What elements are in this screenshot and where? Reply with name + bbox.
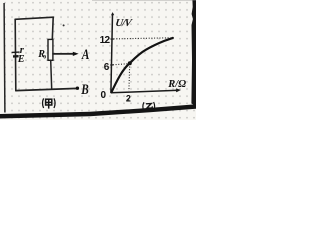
ink speck [63, 24, 65, 26]
label E [17, 54, 25, 65]
dashed line U=12 [111, 38, 171, 39]
label r [20, 45, 25, 56]
label A [81, 46, 89, 63]
label 0 [101, 90, 107, 101]
battery E [12, 52, 20, 56]
wire left [14, 19, 17, 90]
wire top [15, 17, 53, 19]
label U/V [115, 18, 134, 29]
label 12 [100, 35, 111, 46]
svg-text:U/V: U/V [115, 18, 134, 29]
wire to terminal A [53, 53, 74, 55]
svg-text:6: 6 [104, 62, 110, 73]
svg-text:B: B [80, 81, 88, 98]
scan frame decorations (unlabeled) [0, 0, 196, 119]
wire right [51, 17, 54, 40]
resistor R0 [48, 39, 53, 60]
y-axis [111, 13, 114, 93]
svg-text:0: 0 [43, 54, 46, 60]
dashed line U=6 [110, 64, 130, 65]
label R/Ohm [167, 79, 186, 90]
ink speck [128, 99, 130, 101]
label B [80, 81, 88, 98]
svg-text:R/Ω: R/Ω [167, 79, 186, 90]
svg-text:E: E [17, 54, 25, 65]
dashed line R=2 [128, 64, 131, 91]
svg-text:2: 2 [126, 93, 131, 103]
caption (jia) [43, 98, 56, 108]
svg-text:A: A [81, 46, 89, 63]
wire resistor bottom [51, 60, 52, 89]
curve U vs R [111, 38, 172, 93]
svg-text:12: 12 [100, 35, 111, 46]
label 2 [126, 93, 131, 103]
svg-text:0: 0 [101, 90, 107, 101]
caption (yi) [143, 102, 155, 111]
x-axis [111, 89, 180, 93]
label 6 [104, 62, 110, 73]
data point [128, 61, 132, 65]
wire bottom [16, 88, 77, 90]
label R0 [37, 49, 46, 60]
terminal A arrow [73, 52, 79, 56]
terminal B [76, 87, 79, 90]
